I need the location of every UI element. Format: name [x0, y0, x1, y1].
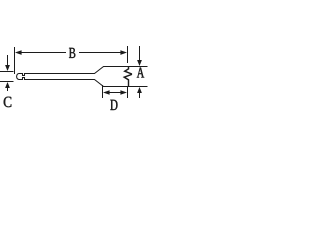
dimension B line left segment [20, 52, 66, 53]
dimension A extension line top [129, 66, 148, 67]
dimension D arrowhead right [120, 90, 127, 95]
dimension D arrowhead left [103, 90, 110, 95]
label D [110, 100, 117, 110]
dimension C upper arrowhead [5, 65, 10, 71]
dimension B extension line left [14, 47, 15, 74]
dimension B extension line right [127, 46, 128, 63]
dimension A upper arrowhead [137, 60, 142, 66]
dimension D extension line left [102, 85, 103, 98]
label A [137, 68, 144, 78]
dimension A upper arrow shaft [139, 46, 140, 60]
dimension B arrowhead left [15, 50, 22, 55]
dimension A lower arrow shaft [139, 93, 140, 98]
dimension D extension line right [127, 87, 128, 98]
label C [4, 97, 12, 107]
dimension B arrowhead right [120, 50, 127, 55]
dimension C lower arrow shaft [7, 88, 8, 91]
dimension C upper arrow shaft [7, 55, 8, 65]
dimension A extension line bottom [129, 86, 148, 87]
dimension B line right segment [79, 52, 121, 53]
dimension C extension line bottom [0, 81, 14, 82]
dimension A lower arrowhead [137, 87, 142, 93]
dimension C lower arrowhead [5, 82, 10, 88]
spade bit outline (shank with end groove, transition, blade with centre spur) [17, 67, 132, 87]
label B [69, 48, 75, 58]
dimension C extension line top [0, 71, 14, 72]
dimension D line [110, 92, 121, 93]
blade tip cutting edge (thicker zigzag with centre spur) [124, 67, 131, 87]
